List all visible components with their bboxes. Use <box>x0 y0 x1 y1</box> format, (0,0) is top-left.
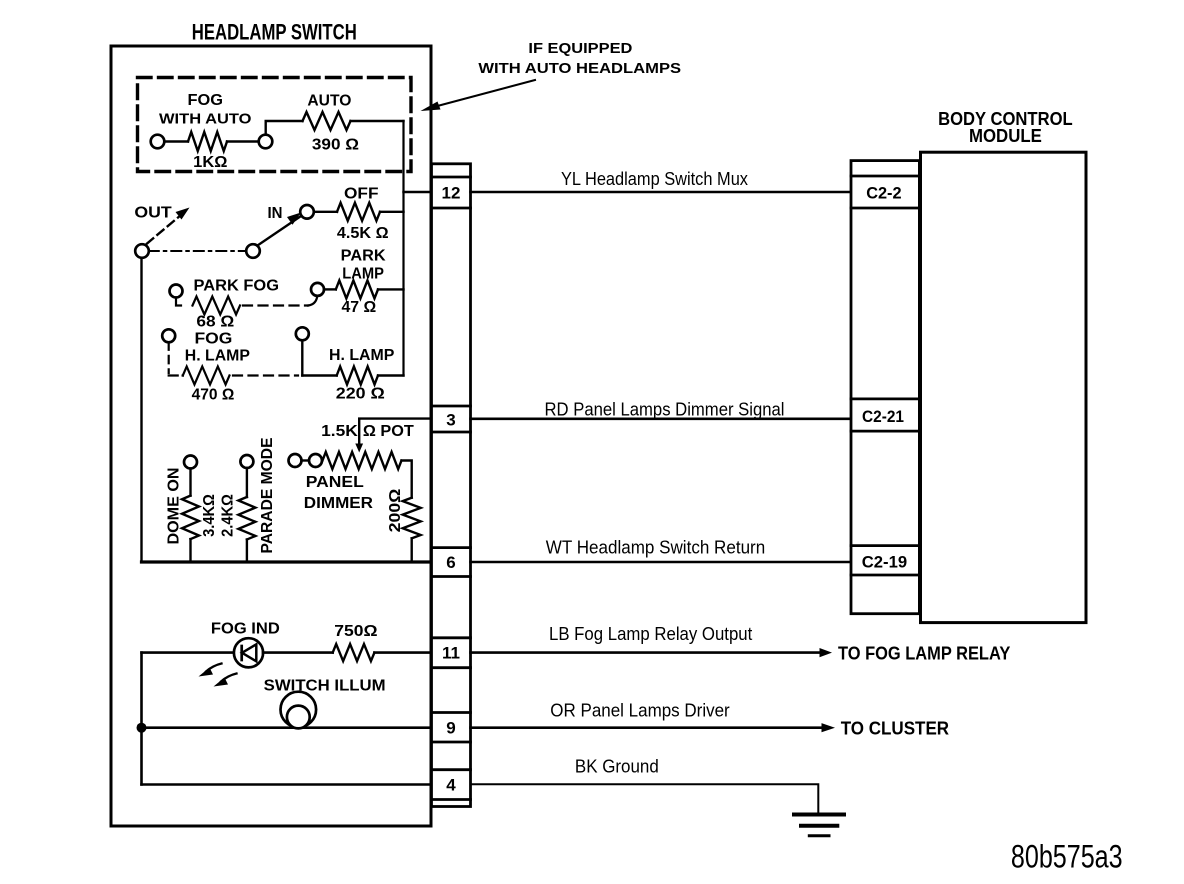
switch common terminal <box>135 244 149 258</box>
svg-text:H. LAMP: H. LAMP <box>185 348 250 365</box>
svg-text:Ω POT: Ω POT <box>363 423 414 440</box>
svg-text:C2-19: C2-19 <box>862 553 907 572</box>
resistor 47Ω <box>336 280 378 298</box>
switch IN pivot terminal <box>246 244 260 258</box>
dashed corner to resistor <box>169 374 183 376</box>
wire pin6 to C2-19 <box>471 561 852 564</box>
svg-text:12: 12 <box>442 184 461 203</box>
terminal DOME ON <box>184 456 197 469</box>
resistor 68Ω (dashed branch) <box>193 297 241 315</box>
svg-text:47 Ω: 47 Ω <box>342 299 377 316</box>
label FOG WITH AUTO <box>159 92 252 128</box>
headlamp switch box <box>111 46 431 826</box>
label BODY CONTROL MODULE <box>938 109 1073 146</box>
stem <box>246 468 248 497</box>
LED FOG IND <box>234 638 263 667</box>
stem to bus <box>246 540 248 561</box>
wire <box>378 288 404 290</box>
wire up to AUTO branch <box>266 121 303 135</box>
svg-text:DIMMER: DIMMER <box>304 495 374 512</box>
svg-text:3: 3 <box>446 411 455 430</box>
body control module box <box>921 152 1087 622</box>
terminal at OFF <box>300 205 314 219</box>
wire <box>302 374 336 376</box>
svg-text:3.4KΩ: 3.4KΩ <box>201 494 218 537</box>
ground symbol <box>794 813 844 817</box>
lamp SWITCH ILLUM <box>281 692 317 728</box>
resistor 1KΩ <box>188 132 227 151</box>
wire <box>302 459 310 461</box>
svg-text:OFF: OFF <box>344 186 379 203</box>
hook wire <box>308 298 317 306</box>
wire row 9 <box>142 726 432 729</box>
common stem down to bottom bus <box>140 258 142 561</box>
svg-text:RD Panel Lamps Dimmer Signal: RD Panel Lamps Dimmer Signal <box>545 399 785 420</box>
svg-text:IN: IN <box>268 205 283 222</box>
svg-text:LB Fog Lamp Relay Output: LB Fog Lamp Relay Output <box>549 623 752 644</box>
svg-text:1.5K: 1.5K <box>321 423 358 440</box>
svg-text:SWITCH ILLUM: SWITCH ILLUM <box>264 678 386 695</box>
wire <box>378 374 404 376</box>
svg-text:11: 11 <box>442 644 460 663</box>
dashed wire to H.LAMP stem <box>233 374 298 376</box>
label PARK LAMP <box>341 248 386 283</box>
wire <box>227 140 259 142</box>
wire pot to 200Ω <box>402 461 412 498</box>
bus wire (right vertical inside switch) <box>402 121 404 376</box>
pot terminal a <box>289 454 302 467</box>
svg-text:PARK: PARK <box>341 248 386 265</box>
wire pin3 to C2-21 <box>471 417 852 420</box>
svg-text:1KΩ: 1KΩ <box>193 154 227 171</box>
resistor 390Ω <box>303 112 351 130</box>
wire row 11 <box>142 651 235 654</box>
svg-text:TO FOG LAMP RELAY: TO FOG LAMP RELAY <box>838 644 1010 664</box>
label 1.5K Ω POT <box>321 423 414 440</box>
wire from pin 3 to pot wiper <box>359 419 432 443</box>
svg-text:FOG: FOG <box>195 331 233 348</box>
svg-text:PARK FOG: PARK FOG <box>194 278 280 295</box>
wire <box>314 211 337 213</box>
svg-text:PANEL: PANEL <box>306 474 364 491</box>
BCM connector column <box>851 161 919 614</box>
terminal: fog/auto junction <box>259 135 273 149</box>
wire row 4 <box>142 783 432 786</box>
wire pin11 to fog lamp relay <box>471 651 821 654</box>
wire <box>324 288 336 290</box>
svg-text:DOME ON: DOME ON <box>166 468 183 545</box>
terminal PARK LAMP <box>311 283 324 296</box>
resistor 470Ω (dashed branch) <box>183 367 230 385</box>
svg-text:AUTO: AUTO <box>307 93 351 110</box>
svg-text:OUT: OUT <box>134 205 172 222</box>
svg-text:PARADE MODE: PARADE MODE <box>259 438 276 554</box>
stem to bus <box>189 539 191 560</box>
resistor 4.5KΩ (OFF) <box>337 203 380 221</box>
svg-text:C2-21: C2-21 <box>862 407 904 426</box>
label PANEL DIMMER <box>304 474 374 512</box>
svg-text:4.5K Ω: 4.5K Ω <box>337 225 389 242</box>
svg-text:390 Ω: 390 Ω <box>312 137 359 154</box>
dashed box: auto headlamp option <box>138 78 412 172</box>
terminal H.LAMP <box>296 327 309 340</box>
svg-text:BK Ground: BK Ground <box>575 756 659 777</box>
svg-text:HEADLAMP SWITCH: HEADLAMP SWITCH <box>192 20 357 45</box>
junction dot <box>137 723 147 733</box>
svg-text:LAMP: LAMP <box>342 266 384 283</box>
bottom bus to pin 6 <box>142 560 433 563</box>
dash-dot wire <box>149 250 246 252</box>
terminal: FOG WITH AUTO left <box>151 135 165 149</box>
dashed stem <box>168 342 170 373</box>
note IF EQUIPPED WITH AUTO HEADLAMPS <box>478 40 681 77</box>
LED light arrows <box>206 664 222 672</box>
wire to pin 11 <box>374 651 431 654</box>
terminal PARADE MODE <box>240 455 253 468</box>
wire 200Ω to bottom bus <box>411 538 413 560</box>
terminal PARK FOG <box>170 285 183 298</box>
switch OUT throw (dashed arrow) <box>147 215 181 244</box>
stem <box>189 469 191 496</box>
wire to pin 12 <box>404 191 432 193</box>
svg-text:68 Ω: 68 Ω <box>196 314 234 331</box>
terminal FOG H.LAMP <box>162 329 175 342</box>
wiper arrowhead <box>355 444 363 453</box>
resistor 3.4KΩ <box>182 496 199 539</box>
svg-text:OR Panel Lamps Driver: OR Panel Lamps Driver <box>550 700 729 721</box>
dashed wire to park lamp terminal <box>243 304 308 306</box>
svg-text:TO CLUSTER: TO CLUSTER <box>841 719 949 739</box>
switch connector column <box>432 164 471 807</box>
svg-text:IF EQUIPPED: IF EQUIPPED <box>528 40 632 57</box>
stem <box>176 298 181 306</box>
resistor 2.4KΩ <box>238 497 255 539</box>
svg-text:2.4KΩ: 2.4KΩ <box>219 494 236 537</box>
wire <box>164 140 188 142</box>
wire pin9 to cluster <box>471 726 823 729</box>
switch IN throw (arrow to OFF terminal) <box>258 216 302 246</box>
stem <box>301 340 303 375</box>
wire pin4 to ground <box>471 784 819 813</box>
left vertical (lamp circuit) <box>140 653 143 785</box>
resistor 220Ω <box>337 367 378 385</box>
pot terminal b <box>309 454 322 467</box>
svg-text:YL Headlamp Switch Mux: YL Headlamp Switch Mux <box>561 168 749 189</box>
svg-text:220 Ω: 220 Ω <box>336 386 385 403</box>
svg-text:9: 9 <box>446 719 455 738</box>
svg-text:WITH AUTO: WITH AUTO <box>159 111 252 128</box>
svg-text:C2-2: C2-2 <box>866 184 901 203</box>
svg-text:MODULE: MODULE <box>969 126 1042 146</box>
svg-text:FOG IND: FOG IND <box>211 621 280 638</box>
potentiometer 1.5KΩ PANEL DIMMER <box>323 452 402 469</box>
svg-text:750Ω: 750Ω <box>334 623 377 640</box>
svg-text:4: 4 <box>446 776 456 795</box>
wire <box>263 651 333 654</box>
svg-text:WT Headlamp Switch Return: WT Headlamp Switch Return <box>546 537 765 558</box>
leader arrow to dashed box <box>428 80 535 109</box>
wire <box>380 211 404 213</box>
wire pin12 to C2-2 <box>471 191 852 194</box>
svg-text:200Ω: 200Ω <box>387 488 404 532</box>
svg-text:6: 6 <box>446 553 455 572</box>
svg-text:H. LAMP: H. LAMP <box>329 347 395 364</box>
svg-text:WITH AUTO HEADLAMPS: WITH AUTO HEADLAMPS <box>478 60 681 77</box>
svg-text:FOG: FOG <box>188 92 224 109</box>
wire from 390Ω to bus <box>351 120 404 122</box>
resistor 750Ω <box>333 644 375 661</box>
svg-text:80b575a3: 80b575a3 <box>1011 839 1123 875</box>
resistor 200Ω <box>403 498 421 539</box>
svg-text:470 Ω: 470 Ω <box>192 387 235 404</box>
